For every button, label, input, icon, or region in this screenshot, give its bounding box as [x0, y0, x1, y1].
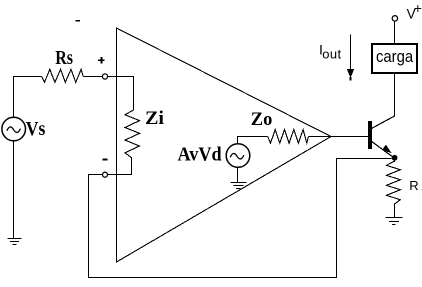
wire node to R — [394, 158, 396, 162]
svg-text:Zo: Zo — [251, 110, 273, 130]
svg-text:+: + — [414, 0, 422, 16]
junction node at emitter — [392, 155, 398, 161]
stray mark top left — [76, 20, 80, 22]
ac source AvVd — [226, 144, 250, 168]
transistor Q1 — [368, 116, 395, 158]
terminal V+ — [392, 16, 397, 21]
node - input terminal — [103, 172, 108, 177]
svg-text:Zi: Zi — [145, 108, 165, 128]
op-amp triangle — [117, 28, 332, 262]
wire Vs top to Rs — [14, 77, 42, 118]
load box carga — [372, 44, 417, 73]
current arrow Iout — [347, 34, 355, 80]
svg-text:R: R — [409, 178, 418, 193]
wire Zi bottom to - input terminal — [108, 158, 132, 175]
svg-text:AvVd: AvVd — [178, 144, 222, 166]
label V+ — [407, 0, 422, 22]
resistor Rs — [42, 69, 84, 82]
wire Rs to + input terminal — [83, 76, 102, 78]
label - — [103, 159, 108, 161]
ground under AvVd — [231, 167, 247, 188]
svg-text:out: out — [322, 47, 341, 62]
wire + terminal to Zi top — [108, 77, 134, 111]
node + input terminal — [102, 74, 107, 79]
resistor Zo — [268, 130, 309, 144]
svg-text:Rs: Rs — [55, 47, 73, 69]
label + — [98, 57, 105, 63]
label Iout — [319, 41, 342, 61]
resistor Zi — [125, 110, 140, 158]
ac source Vs — [2, 117, 26, 141]
wire feedback loop from - terminal to emitter node — [89, 159, 392, 278]
wire Zo to transistor base through op-amp output — [309, 136, 369, 138]
svg-text:carga: carga — [376, 48, 413, 66]
ground under Vs — [8, 141, 22, 245]
wire AvVd top to Zo — [238, 137, 268, 144]
wire carga bottom to collector — [394, 73, 396, 117]
ground under R — [386, 204, 403, 225]
resistor R — [387, 161, 401, 204]
svg-text:Vs: Vs — [26, 118, 46, 140]
wire V+ terminal to carga — [394, 21, 396, 44]
